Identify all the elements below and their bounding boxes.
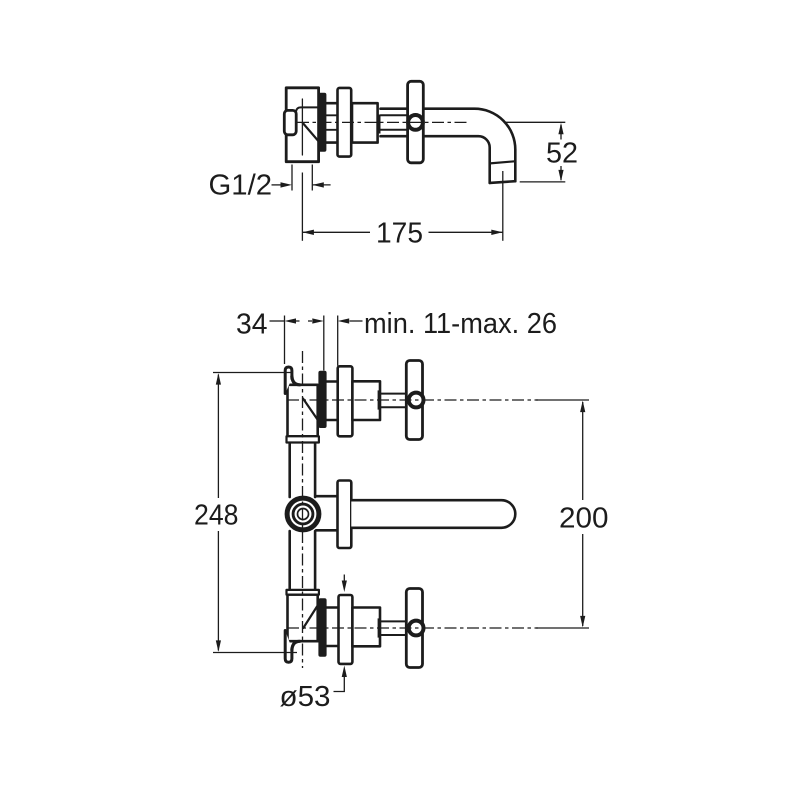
- svg-text:G1/2: G1/2: [209, 170, 273, 202]
- svg-text:52: 52: [546, 138, 578, 170]
- svg-text:200: 200: [559, 503, 609, 535]
- svg-text:34: 34: [236, 308, 268, 340]
- svg-text:min. 11-max. 26: min. 11-max. 26: [364, 308, 557, 340]
- svg-text:175: 175: [376, 218, 423, 250]
- svg-text:ø53: ø53: [280, 681, 331, 713]
- svg-text:248: 248: [194, 499, 239, 531]
